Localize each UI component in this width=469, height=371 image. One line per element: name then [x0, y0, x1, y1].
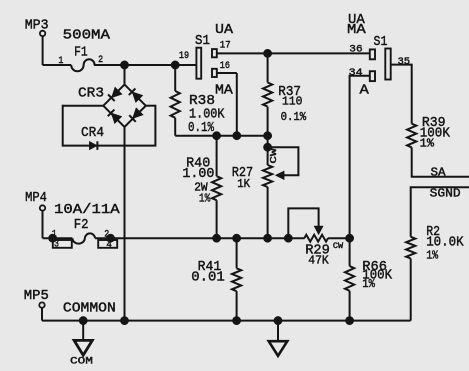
svg-text:2: 2	[104, 230, 109, 241]
svg-text:500MA: 500MA	[63, 27, 111, 43]
svg-text:F2: F2	[74, 217, 89, 233]
svg-text:S1: S1	[195, 33, 210, 49]
svg-text:19: 19	[179, 51, 189, 62]
svg-text:0.1%: 0.1%	[188, 120, 214, 136]
svg-text:35: 35	[398, 57, 410, 68]
svg-text:0.01: 0.01	[191, 270, 225, 286]
svg-text:SGND: SGND	[430, 186, 461, 200]
svg-text:1: 1	[58, 56, 63, 67]
svg-text:2: 2	[98, 55, 103, 66]
svg-text:CW: CW	[333, 242, 343, 251]
svg-text:1%: 1%	[420, 138, 434, 151]
svg-text:CR3: CR3	[78, 86, 104, 102]
svg-text:10A/11A: 10A/11A	[54, 202, 120, 218]
svg-text:17: 17	[220, 41, 231, 52]
svg-text:MP4: MP4	[25, 190, 47, 206]
svg-text:1%: 1%	[426, 250, 438, 263]
svg-text:110: 110	[282, 95, 302, 109]
svg-text:COM: COM	[70, 356, 93, 368]
svg-text:34: 34	[349, 68, 363, 79]
svg-text:47K: 47K	[308, 254, 329, 268]
svg-text:1%: 1%	[362, 278, 375, 291]
svg-text:A: A	[360, 83, 370, 99]
svg-text:MA: MA	[215, 83, 233, 99]
svg-text:SA: SA	[431, 165, 447, 179]
svg-text:CR4: CR4	[81, 125, 104, 141]
svg-text:1.00: 1.00	[182, 166, 214, 182]
svg-text:CW: CW	[269, 148, 279, 164]
svg-text:1K: 1K	[237, 178, 250, 191]
svg-text:MA: MA	[347, 22, 366, 38]
svg-text:4: 4	[106, 240, 112, 251]
svg-text:F1: F1	[74, 45, 88, 61]
svg-text:MP3: MP3	[25, 17, 49, 33]
svg-text:MP5: MP5	[24, 288, 49, 304]
svg-text:COMMON: COMMON	[63, 300, 116, 316]
svg-text:3: 3	[54, 239, 59, 250]
svg-text:1%: 1%	[199, 193, 210, 206]
svg-text:36: 36	[349, 45, 362, 56]
svg-text:10.0K: 10.0K	[426, 235, 464, 251]
svg-text:UA: UA	[215, 22, 234, 38]
svg-text:0.1%: 0.1%	[281, 110, 307, 124]
svg-text:S1: S1	[374, 34, 388, 50]
svg-text:16: 16	[220, 61, 230, 72]
